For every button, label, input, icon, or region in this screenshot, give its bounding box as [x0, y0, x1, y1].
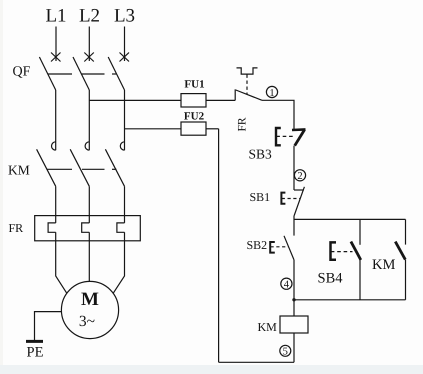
breaker QF linkage — [48, 73, 117, 75]
wire FU2 tap from L3 — [125, 128, 182, 130]
motor 3~ label — [79, 313, 95, 330]
svg-text:FR: FR — [237, 117, 249, 131]
wire L2 lead-in — [88, 27, 90, 62]
svg-text:FU1: FU1 — [184, 79, 204, 91]
motor M circle — [61, 281, 118, 338]
pushbutton SB3 label — [249, 147, 273, 162]
breaker QF pole 3 blade — [108, 57, 124, 90]
wire phase1 KM to FR — [55, 186, 57, 223]
thermal relay FR contact rotated label — [237, 117, 249, 131]
svg-text:SB4: SB4 — [318, 271, 344, 287]
thermal relay FR box — [35, 216, 141, 241]
node L1 label — [45, 6, 66, 27]
breaker QF pole 2 blade — [73, 57, 89, 90]
fuse FU1 — [181, 94, 206, 107]
wire phase3 FR to motor — [113, 232, 125, 293]
breaker QF label — [13, 65, 31, 80]
contactor KM pole 3 fixed-contact hook — [120, 142, 124, 150]
wire phase2 KM to FR — [88, 186, 90, 223]
pushbutton SB3 actuator bracket — [276, 128, 281, 145]
svg-text:2: 2 — [297, 171, 302, 182]
ground PE label — [27, 345, 44, 361]
wire L3 lead-in — [124, 27, 126, 62]
svg-text:KM: KM — [372, 257, 395, 273]
wire parallel-branch top rail — [294, 218, 406, 220]
pushbutton SB1 actuator bracket — [281, 193, 285, 204]
contactor KM label — [8, 163, 30, 178]
paper left edge band — [0, 0, 3, 365]
ground PE bar — [26, 340, 43, 343]
wire KM-contact branch lower — [405, 260, 407, 300]
wire FU1 tap from L2 — [89, 99, 181, 101]
wire SB2 to coil junction — [293, 260, 295, 316]
pushbutton SB1 blade — [294, 187, 304, 216]
svg-text:1: 1 — [269, 88, 274, 99]
contact KM auxiliary blade — [395, 242, 405, 260]
node 4 — [281, 278, 292, 290]
wire SB3 to SB1 — [293, 146, 295, 190]
pushbutton SB1 actuator dashed link — [282, 198, 300, 200]
wire phase1 QF to KM — [55, 90, 57, 150]
wire phase2 FR to motor — [88, 232, 90, 281]
pushbutton SB1 label — [250, 190, 271, 204]
wire SB4 branch lower — [359, 260, 361, 300]
contactor KM pole 1 blade — [37, 149, 56, 186]
pushbutton SB2 actuator dashed link — [271, 246, 289, 248]
wire SB1 to SB2 — [293, 216, 295, 236]
thermal relay FR label — [9, 221, 24, 235]
coil KM — [280, 316, 308, 333]
svg-text:SB1: SB1 — [250, 190, 271, 204]
svg-text:SB2: SB2 — [247, 238, 268, 252]
svg-text:M: M — [81, 289, 99, 310]
junction dot — [292, 298, 295, 301]
contactor KM pole 2 fixed-contact hook — [85, 142, 89, 150]
pushbutton SB2 actuator bracket — [270, 242, 275, 253]
motor M letter — [81, 289, 99, 310]
contactor KM pole 3 blade — [105, 149, 124, 186]
pushbutton SB4 actuator dashed link — [331, 251, 353, 253]
breaker QF pole 1 blade — [39, 57, 55, 90]
svg-text:KM: KM — [8, 163, 30, 178]
pushbutton SB1 top terminal tick — [294, 189, 304, 191]
svg-text:FU2: FU2 — [184, 111, 205, 123]
svg-text:3~: 3~ — [79, 313, 95, 330]
contactor KM linkage — [47, 168, 117, 170]
thermal relay FR heater 3 — [117, 223, 125, 232]
svg-text:FR: FR — [9, 221, 24, 235]
wire return riser to FU2 — [218, 129, 220, 362]
thermal relay FR contact terminal tick — [234, 89, 236, 100]
svg-text:L1: L1 — [45, 6, 66, 27]
wire FR contact to corner — [262, 100, 294, 130]
wire FU2 to control return — [206, 128, 219, 130]
thermal relay FR heater 1 — [48, 223, 56, 232]
svg-text:KM: KM — [258, 320, 278, 334]
pushbutton SB2 blade — [284, 236, 294, 260]
fuse FU1 label — [184, 79, 204, 91]
pushbutton SB3 blade — [295, 130, 305, 146]
wire phase1 FR to motor — [56, 232, 67, 293]
node 1 — [266, 86, 277, 98]
svg-text:4: 4 — [284, 280, 290, 291]
contact KM auxiliary label — [372, 257, 395, 273]
svg-text:SB3: SB3 — [249, 147, 273, 162]
contactor KM pole 1 fixed-contact hook — [51, 142, 55, 150]
svg-text:L3: L3 — [114, 6, 135, 27]
wire KM-contact branch upper — [405, 219, 407, 244]
pushbutton SB2 label — [247, 238, 268, 252]
pushbutton SB3 actuator dashed link — [276, 135, 294, 137]
node L3 label — [114, 6, 135, 27]
thermal relay FR contact blade — [236, 90, 262, 100]
svg-text:QF: QF — [13, 65, 31, 80]
pushbutton SB4 actuator bracket — [331, 242, 337, 259]
svg-text:PE: PE — [27, 345, 44, 361]
arrowhead L3 — [120, 53, 130, 62]
arrowhead L2 — [84, 53, 94, 62]
contactor KM pole 2 blade — [70, 149, 89, 186]
svg-text:L2: L2 — [79, 6, 100, 27]
wire SB4 branch upper — [359, 219, 361, 244]
pushbutton SB4 blade — [351, 242, 361, 260]
fuse FU2 label — [184, 111, 205, 123]
svg-text:5: 5 — [283, 347, 288, 358]
wire PE to motor — [35, 312, 62, 341]
wire phase3 KM to FR — [124, 186, 126, 223]
wire coil to return — [293, 333, 295, 362]
node 2 — [294, 170, 305, 182]
arrowhead L1 — [51, 53, 61, 62]
pushbutton SB4 label — [318, 271, 344, 287]
wire L1 lead-in — [55, 27, 57, 62]
node L2 label — [79, 6, 100, 27]
wire phase2 QF to KM — [88, 90, 90, 150]
node 5 — [280, 345, 291, 357]
fuse FU2 — [181, 122, 206, 135]
wire phase3 QF to KM — [124, 90, 126, 150]
thermal relay FR contact actuator symbol — [237, 68, 258, 74]
wire parallel-branch bottom rail — [294, 299, 406, 301]
thermal relay FR contact actuator dashed link — [246, 75, 248, 95]
coil KM label — [258, 320, 278, 334]
paper bottom edge band — [0, 365, 423, 374]
wire return bottom — [219, 361, 294, 363]
thermal relay FR heater 2 — [82, 223, 90, 232]
pushbutton SB3 contact bar — [292, 128, 306, 131]
wire FU1 to FR contact — [206, 99, 235, 101]
